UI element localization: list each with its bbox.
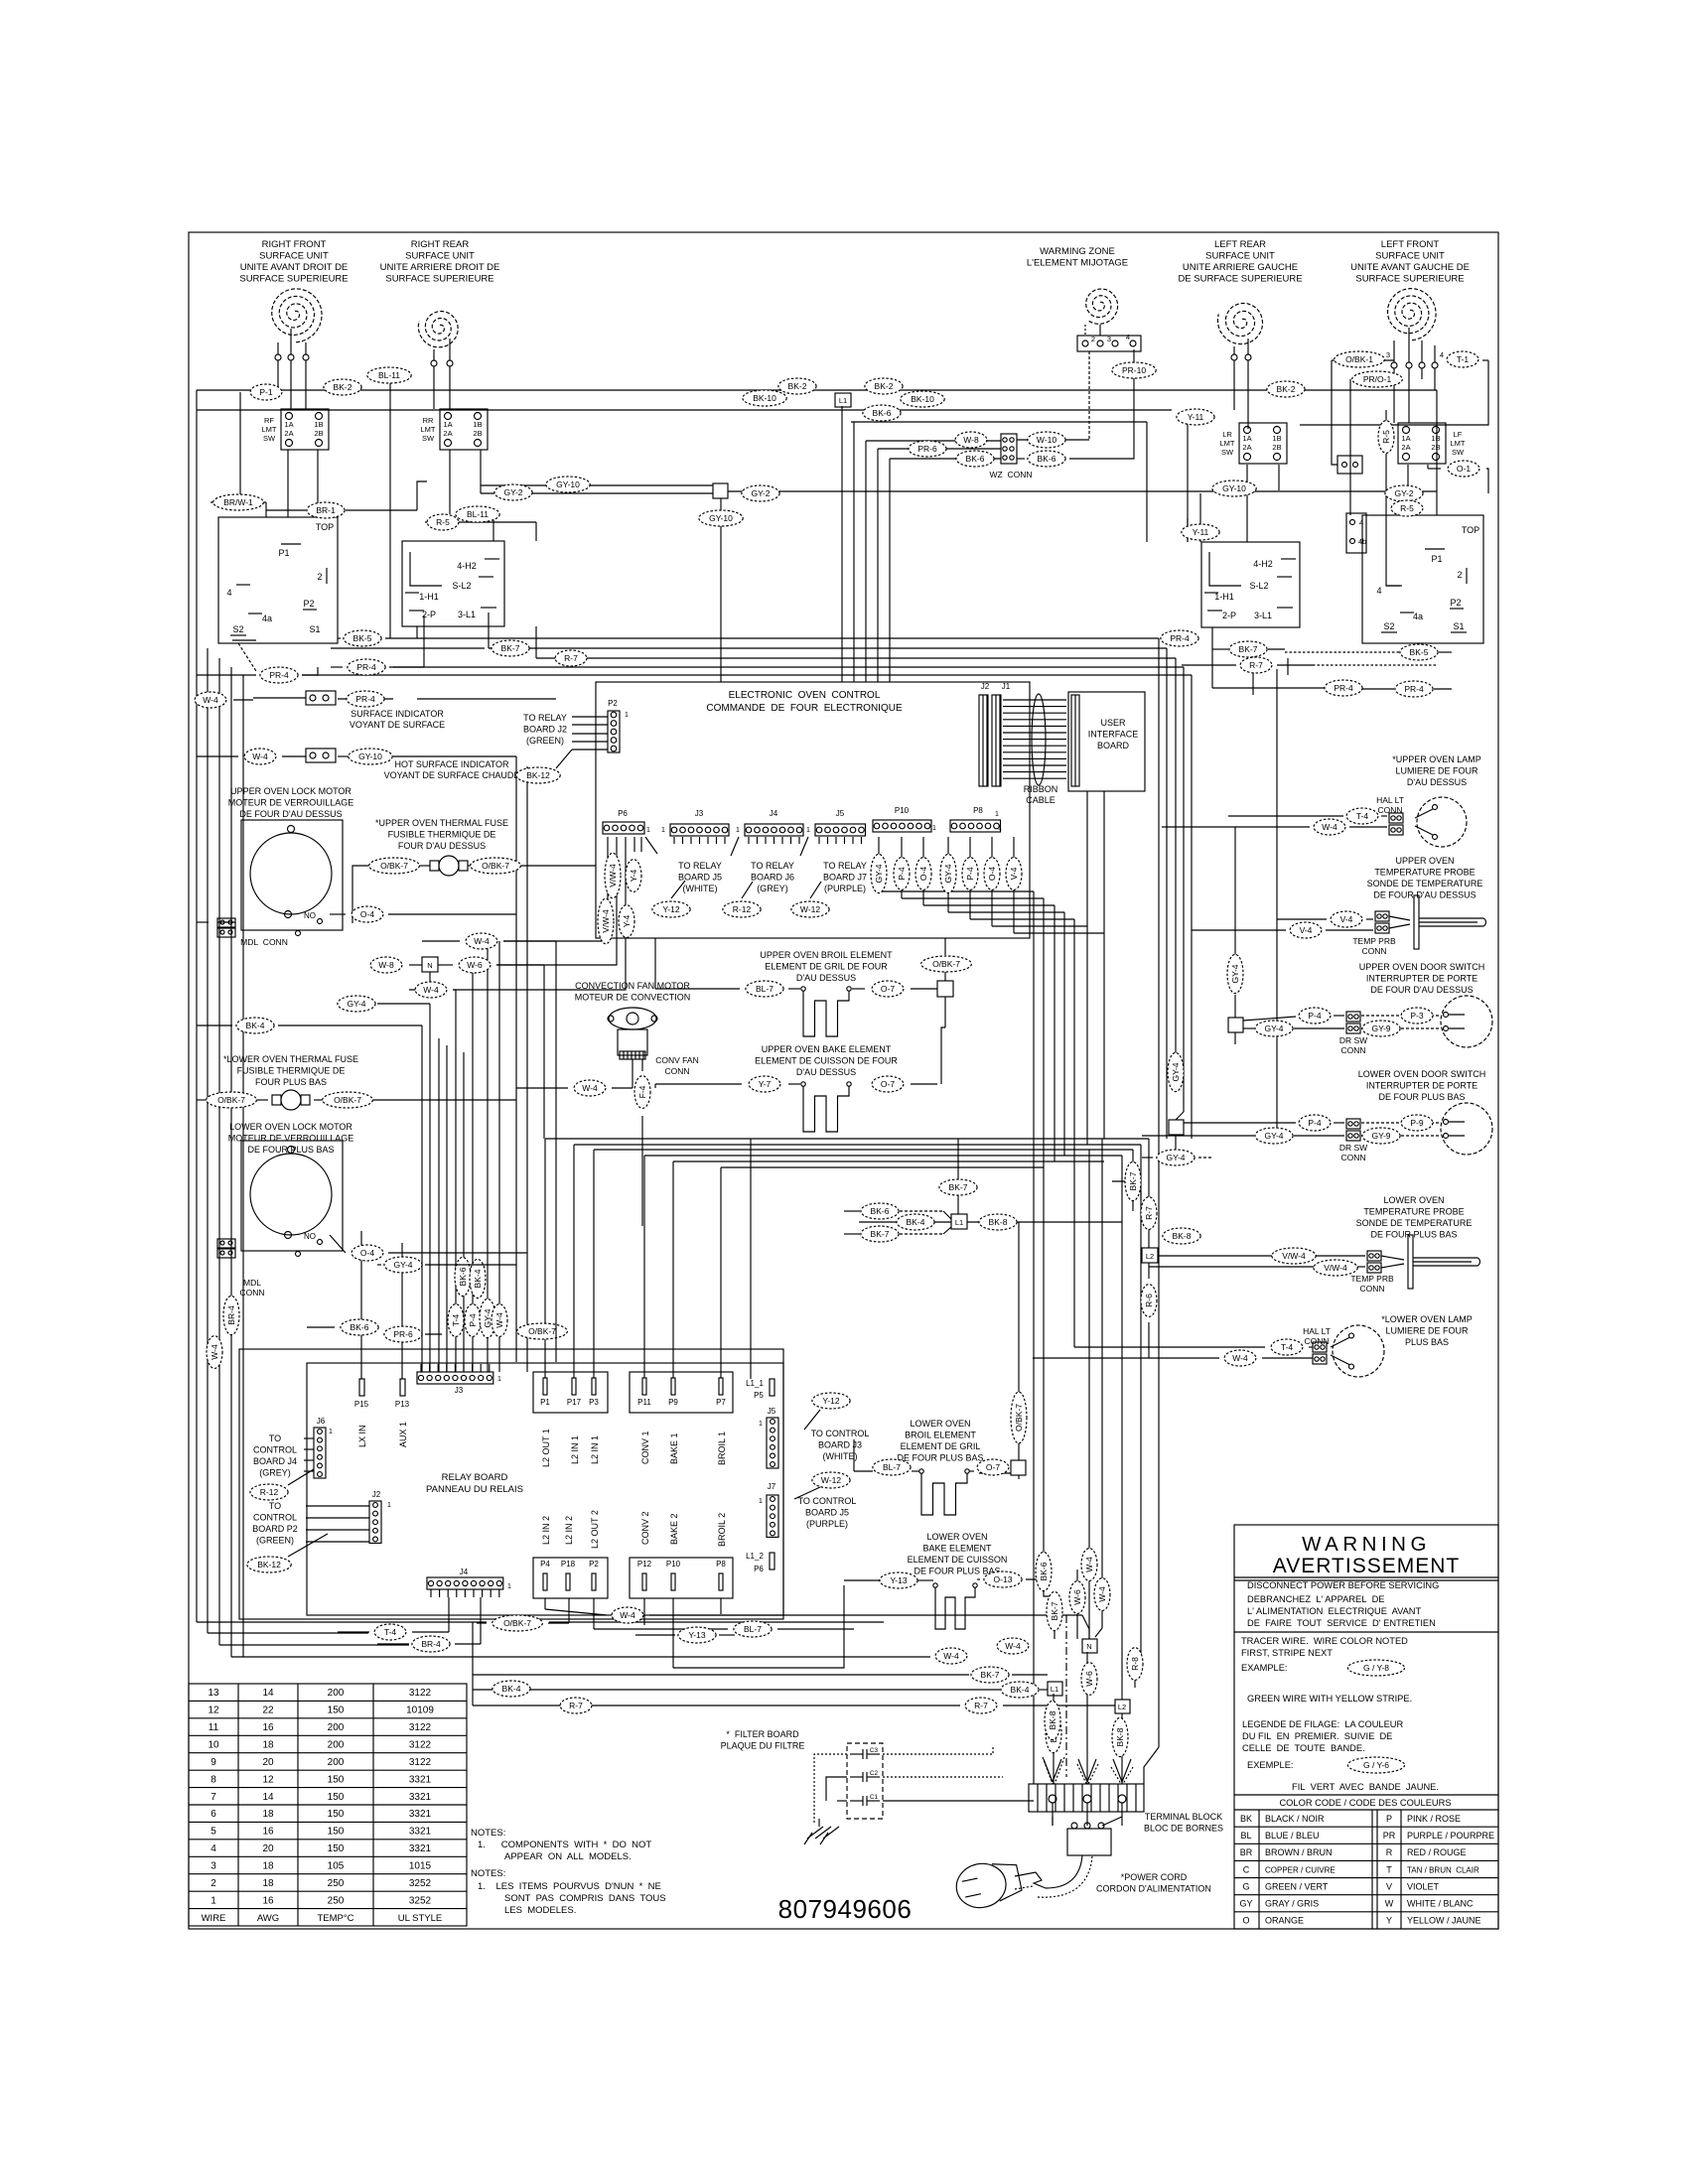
svg-text:BOARD J6: BOARD J6 bbox=[751, 873, 794, 883]
svg-text:HOT SURFACE INDICATOR: HOT SURFACE INDICATOR bbox=[394, 759, 509, 769]
wires upper switch outputs bbox=[338, 637, 341, 639]
oval BK-7 right bbox=[1229, 641, 1267, 657]
svg-text:12: 12 bbox=[208, 1706, 219, 1716]
vertical ovals above relay board bbox=[448, 1304, 464, 1337]
svg-text:TO: TO bbox=[269, 1501, 281, 1511]
node N junction bbox=[422, 957, 438, 972]
svg-text:INTERRUPTER DE PORTE: INTERRUPTER DE PORTE bbox=[1366, 974, 1477, 984]
svg-text:PR-10: PR-10 bbox=[1122, 365, 1146, 375]
svg-text:C2: C2 bbox=[870, 1770, 879, 1777]
wires below relay board bbox=[448, 1597, 450, 1632]
svg-text:R-7: R-7 bbox=[569, 1701, 583, 1710]
oval Y-12 bbox=[652, 901, 690, 917]
svg-text:BAKE 2: BAKE 2 bbox=[669, 1513, 679, 1545]
oval O-4 bbox=[352, 906, 383, 922]
oval BK-4 bbox=[236, 1018, 274, 1033]
svg-text:SURFACE UNIT: SURFACE UNIT bbox=[1375, 251, 1445, 262]
svg-text:T-1: T-1 bbox=[1457, 354, 1470, 364]
staircase from EOC right side bbox=[878, 837, 880, 891]
oval Y-11 bbox=[1182, 524, 1219, 540]
svg-text:*LOWER OVEN LAMP: *LOWER OVEN LAMP bbox=[1381, 1314, 1473, 1324]
oval T-4 bbox=[1346, 808, 1378, 824]
right front surface element coil bbox=[272, 289, 322, 342]
svg-text:PANNEAU DU RELAIS: PANNEAU DU RELAIS bbox=[426, 1484, 523, 1495]
svg-text:BK-7: BK-7 bbox=[1128, 1171, 1138, 1190]
svg-text:Y-12: Y-12 bbox=[662, 904, 679, 914]
svg-text:BROIL ELEMENT: BROIL ELEMENT bbox=[905, 1431, 976, 1440]
svg-text:16: 16 bbox=[262, 1722, 274, 1733]
oval R-7 mid bbox=[965, 1698, 997, 1713]
svg-text:1B: 1B bbox=[1431, 434, 1440, 443]
svg-text:1A: 1A bbox=[1401, 434, 1410, 443]
svg-text:L1_1: L1_1 bbox=[746, 1379, 764, 1388]
oval GY-4 bbox=[384, 1257, 422, 1273]
svg-text:R-7: R-7 bbox=[974, 1701, 988, 1710]
svg-text:LUMIERE DE FOUR: LUMIERE DE FOUR bbox=[1385, 1326, 1469, 1336]
vertical oval BK-8 bbox=[1046, 1713, 1061, 1752]
six line bus with elbows to relay board bbox=[545, 1138, 1149, 1140]
svg-text:CONVECTION FAN MOTOR: CONVECTION FAN MOTOR bbox=[575, 981, 690, 991]
svg-text:LEFT FRONT: LEFT FRONT bbox=[1381, 239, 1440, 250]
svg-text:O-7: O-7 bbox=[986, 1462, 1000, 1472]
junction square bbox=[1011, 1460, 1026, 1475]
svg-text:UNITE ARRIERE DROIT DE: UNITE ARRIERE DROIT DE bbox=[380, 262, 500, 273]
svg-text:TO RELAY: TO RELAY bbox=[678, 861, 722, 871]
oval Y-12 bbox=[812, 1393, 850, 1409]
svg-text:NOTES:: NOTES: bbox=[471, 1868, 505, 1879]
svg-text:EXAMPLE:: EXAMPLE: bbox=[1241, 1663, 1288, 1673]
oval W-4 mid bbox=[997, 1638, 1029, 1654]
svg-text:W-4: W-4 bbox=[474, 936, 490, 946]
svg-text:PLAQUE DU FILTRE: PLAQUE DU FILTRE bbox=[721, 1741, 805, 1751]
svg-text:UPPER OVEN: UPPER OVEN bbox=[1395, 856, 1454, 866]
relay P4/P18/P2 box bbox=[533, 1558, 608, 1598]
svg-text:BK-8: BK-8 bbox=[1048, 1710, 1057, 1729]
warming zone element coil bbox=[1086, 289, 1118, 324]
wires from EOC P6 elbows bbox=[503, 837, 608, 941]
svg-text:EXEMPLE:: EXEMPLE: bbox=[1247, 1760, 1294, 1770]
svg-text:P1: P1 bbox=[1431, 554, 1442, 564]
vertical oval GY-4 bbox=[1227, 954, 1243, 993]
svg-text:BL: BL bbox=[1240, 1831, 1251, 1841]
svg-text:BR-1: BR-1 bbox=[316, 505, 336, 515]
vertical oval P-4 under P10 bbox=[894, 858, 910, 890]
svg-text:J4: J4 bbox=[770, 809, 778, 818]
svg-text:TAN / BRUN CLAIR: TAN / BRUN CLAIR bbox=[1407, 1865, 1479, 1874]
svg-text:MDL CONN: MDL CONN bbox=[240, 937, 288, 947]
svg-text:P7: P7 bbox=[716, 1398, 726, 1407]
svg-text:200: 200 bbox=[328, 1722, 345, 1733]
svg-text:INTERFACE: INTERFACE bbox=[1088, 730, 1139, 740]
svg-text:W-4: W-4 bbox=[423, 985, 439, 995]
svg-text:Y-7: Y-7 bbox=[759, 1079, 772, 1089]
svg-text:2: 2 bbox=[211, 1878, 216, 1889]
vertical oval BK-8 left bbox=[1045, 1701, 1060, 1739]
right rear surface element coil bbox=[418, 312, 458, 347]
svg-text:BK-10: BK-10 bbox=[911, 394, 934, 404]
oval P-1 bbox=[250, 384, 282, 400]
svg-text:COMMANDE DE FOUR ELECTRONIQ: COMMANDE DE FOUR ELECTRONIQUE bbox=[706, 703, 903, 714]
svg-text:RR: RR bbox=[423, 416, 434, 425]
svg-text:CONV 2: CONV 2 bbox=[640, 1511, 650, 1545]
svg-text:LX IN: LX IN bbox=[357, 1425, 367, 1447]
vertical oval W-6 bbox=[1069, 1581, 1085, 1614]
svg-text:LMT: LMT bbox=[1220, 439, 1235, 448]
vertical oval GY-4 bbox=[1168, 1052, 1184, 1091]
svg-text:ELEMENT DE CUISSON DE FOUR: ELEMENT DE CUISSON DE FOUR bbox=[755, 1056, 898, 1066]
svg-text:W-10: W-10 bbox=[1037, 435, 1056, 445]
svg-text:2A: 2A bbox=[443, 429, 452, 438]
wires warming zone bbox=[1088, 351, 1090, 440]
oval O/BK-1 bbox=[1335, 351, 1385, 367]
svg-text:R-7: R-7 bbox=[1144, 1206, 1154, 1220]
svg-text:T-4: T-4 bbox=[384, 1627, 397, 1637]
oval O-7 bbox=[872, 1076, 904, 1092]
oval W-12 bbox=[812, 1472, 850, 1488]
svg-text:BOARD J2: BOARD J2 bbox=[523, 725, 567, 735]
power cord cable bbox=[1015, 1872, 1046, 1888]
svg-text:APPEAR ON ALL MODELS.: APPEAR ON ALL MODELS. bbox=[504, 1851, 632, 1862]
svg-text:DE FAIRE TOUT SERVICE D' E: DE FAIRE TOUT SERVICE D' ENTRETIEN bbox=[1247, 1618, 1436, 1628]
oval BK-10 bbox=[743, 390, 786, 406]
wire junction box bbox=[713, 483, 728, 498]
svg-text:MOTEUR DE VERROUILLAGE: MOTEUR DE VERROUILLAGE bbox=[228, 1134, 354, 1144]
svg-text:DISCONNECT POWER BEFORE SERVIC: DISCONNECT POWER BEFORE SERVICING bbox=[1247, 1580, 1439, 1590]
svg-text:RIBBON: RIBBON bbox=[1024, 784, 1058, 794]
wires long horizontals bbox=[338, 698, 393, 700]
surface indicator connector bbox=[306, 691, 336, 705]
small 2-pin connector bbox=[1337, 456, 1362, 474]
svg-text:4: 4 bbox=[1376, 586, 1381, 596]
svg-text:O-4: O-4 bbox=[918, 867, 928, 881]
svg-text:4-H2: 4-H2 bbox=[1253, 559, 1273, 569]
svg-text:RF: RF bbox=[264, 416, 274, 425]
svg-text:5: 5 bbox=[211, 1827, 216, 1838]
svg-text:O-7: O-7 bbox=[881, 984, 895, 994]
oval BL-11 bbox=[367, 367, 411, 383]
svg-text:R-12: R-12 bbox=[733, 904, 752, 914]
svg-text:TRACER WIRE. WIRE COLOR NOTED: TRACER WIRE. WIRE COLOR NOTED bbox=[1241, 1636, 1408, 1646]
svg-text:W-4: W-4 bbox=[1322, 822, 1337, 832]
svg-text:O/BK-1: O/BK-1 bbox=[1345, 354, 1373, 364]
svg-text:P-4: P-4 bbox=[1308, 1118, 1322, 1128]
svg-text:R: R bbox=[1386, 1847, 1393, 1857]
svg-text:MDL: MDL bbox=[243, 1278, 261, 1288]
relay board A1 bbox=[307, 1363, 783, 1615]
upper oven bake element bbox=[801, 1082, 805, 1086]
svg-text:18: 18 bbox=[262, 1878, 274, 1889]
upper oven broil element bbox=[801, 987, 805, 991]
svg-text:R-12: R-12 bbox=[260, 1487, 279, 1497]
wires top left bbox=[239, 392, 241, 502]
upper MDL connector bbox=[217, 918, 235, 927]
svg-text:BK-8: BK-8 bbox=[1173, 1231, 1192, 1241]
oval W-6 bbox=[459, 957, 491, 973]
svg-text:BK-2: BK-2 bbox=[788, 381, 807, 391]
svg-text:150: 150 bbox=[328, 1843, 345, 1854]
svg-text:GY-4: GY-4 bbox=[1166, 1153, 1185, 1162]
svg-text:CONN: CONN bbox=[1340, 1153, 1365, 1162]
svg-text:BK-7: BK-7 bbox=[981, 1670, 1000, 1680]
svg-text:SW: SW bbox=[1452, 448, 1465, 457]
svg-text:3252: 3252 bbox=[409, 1878, 432, 1889]
oval GY-9 bbox=[1362, 1128, 1400, 1144]
oval GY-10 bbox=[699, 510, 743, 526]
svg-text:D'AU DESSUS: D'AU DESSUS bbox=[1407, 777, 1467, 787]
svg-text:BK-7: BK-7 bbox=[1239, 644, 1258, 654]
svg-text:F-4: F-4 bbox=[637, 1085, 647, 1098]
vertical oval R-8 bbox=[1127, 1648, 1143, 1681]
svg-text:BOARD P2: BOARD P2 bbox=[252, 1524, 298, 1534]
svg-text:1B: 1B bbox=[1272, 434, 1281, 443]
vertical oval V/W-4 bbox=[598, 898, 614, 944]
oval BK-2 bbox=[1267, 381, 1305, 397]
vertical trunk right of EOC bbox=[1033, 891, 1035, 1621]
svg-text:BLOC DE BORNES: BLOC DE BORNES bbox=[1144, 1824, 1223, 1834]
svg-text:BK-7: BK-7 bbox=[949, 1182, 968, 1192]
svg-text:PR-4: PR-4 bbox=[355, 694, 375, 704]
svg-text:P11: P11 bbox=[637, 1398, 651, 1407]
svg-text:1: 1 bbox=[932, 825, 936, 832]
svg-text:R-7: R-7 bbox=[1249, 660, 1263, 670]
junction square bbox=[937, 981, 953, 997]
svg-text:SW: SW bbox=[1221, 448, 1234, 457]
svg-text:BR-4: BR-4 bbox=[421, 1639, 441, 1649]
svg-text:4a: 4a bbox=[262, 614, 272, 623]
svg-text:PINK / ROSE: PINK / ROSE bbox=[1407, 1814, 1461, 1824]
svg-text:DE FOUR PLUS BAS: DE FOUR PLUS BAS bbox=[1378, 1092, 1465, 1102]
svg-text:3122: 3122 bbox=[409, 1740, 432, 1751]
oval BK-7 mid bbox=[971, 1667, 1009, 1683]
left-rear surface switch box bbox=[1201, 542, 1300, 627]
relay P12/P10/P8 box bbox=[630, 1558, 733, 1598]
svg-text:8: 8 bbox=[211, 1774, 216, 1785]
svg-text:BL-7: BL-7 bbox=[756, 984, 774, 994]
border frame bbox=[189, 232, 1498, 1929]
vertical oval R-6 bbox=[1141, 1285, 1157, 1317]
svg-text:O/BK-7: O/BK-7 bbox=[482, 861, 509, 871]
svg-text:BK-2: BK-2 bbox=[875, 381, 894, 391]
oval T-4 bbox=[1271, 1339, 1303, 1355]
svg-text:NOTES:: NOTES: bbox=[471, 1828, 505, 1839]
svg-text:FIL VERT AVEC BANDE JAUNE.: FIL VERT AVEC BANDE JAUNE. bbox=[1292, 1782, 1439, 1792]
LF limit switch bbox=[1398, 423, 1446, 464]
svg-text:HAL LT: HAL LT bbox=[1303, 1326, 1331, 1336]
wires bottom center verticals bbox=[1033, 1621, 1035, 1784]
svg-text:4: 4 bbox=[1126, 333, 1130, 341]
svg-text:CONN: CONN bbox=[1361, 946, 1386, 956]
svg-text:W-12: W-12 bbox=[821, 1475, 841, 1485]
svg-text:RIGHT FRONT: RIGHT FRONT bbox=[262, 239, 327, 250]
svg-text:*LOWER OVEN THERMAL FUSE: *LOWER OVEN THERMAL FUSE bbox=[223, 1054, 358, 1064]
RF limit switch bbox=[281, 409, 329, 450]
svg-text:150: 150 bbox=[328, 1774, 345, 1785]
oval BK-6 bbox=[341, 1319, 378, 1335]
svg-text:J5: J5 bbox=[768, 1407, 776, 1416]
svg-text:W-8: W-8 bbox=[963, 435, 979, 445]
svg-text:ORANGE: ORANGE bbox=[1265, 1916, 1304, 1926]
oval V-4 bbox=[1331, 911, 1362, 927]
vertical oval Y-4 bbox=[626, 860, 641, 892]
oval O-7 bbox=[977, 1459, 1009, 1475]
left rear surface element coil bbox=[1217, 303, 1262, 343]
svg-text:1B: 1B bbox=[473, 420, 482, 429]
svg-text:GY-4: GY-4 bbox=[483, 1308, 492, 1327]
oval O-1 bbox=[1448, 461, 1479, 477]
svg-text:MOTEUR DE CONVECTION: MOTEUR DE CONVECTION bbox=[575, 993, 691, 1003]
svg-text:1: 1 bbox=[329, 1429, 333, 1435]
wires lock motor area bbox=[330, 913, 346, 915]
svg-text:GREEN WIRE WITH YELLOW STRIPE.: GREEN WIRE WITH YELLOW STRIPE. bbox=[1247, 1694, 1412, 1704]
svg-text:CONN: CONN bbox=[1359, 1284, 1384, 1294]
svg-text:W-4: W-4 bbox=[582, 1083, 598, 1093]
svg-text:(GREY): (GREY) bbox=[757, 884, 788, 893]
svg-text:P-3: P-3 bbox=[1410, 1011, 1424, 1021]
svg-text:1A: 1A bbox=[443, 420, 452, 429]
wires bottom left horizontal bbox=[208, 1632, 368, 1634]
oval P-4 bbox=[1299, 1115, 1331, 1131]
svg-text:R-5: R-5 bbox=[1381, 430, 1391, 444]
oval PR-4 bbox=[260, 667, 298, 683]
svg-text:P12: P12 bbox=[637, 1560, 652, 1569]
svg-text:PR-4: PR-4 bbox=[356, 662, 376, 672]
relay board A1 outer outline bbox=[239, 1349, 783, 1619]
oval BK-4 mid bbox=[897, 1214, 934, 1230]
svg-text:BAKE ELEMENT: BAKE ELEMENT bbox=[922, 1544, 992, 1554]
svg-text:Y-4: Y-4 bbox=[622, 915, 632, 928]
svg-text:BK-12: BK-12 bbox=[526, 770, 550, 780]
svg-text:BK-12: BK-12 bbox=[257, 1560, 281, 1570]
oval GY-10 bbox=[546, 477, 590, 492]
svg-text:N: N bbox=[1086, 1642, 1091, 1651]
svg-text:GREEN / VERT: GREEN / VERT bbox=[1265, 1881, 1329, 1891]
svg-text:BOARD J7: BOARD J7 bbox=[823, 873, 867, 883]
svg-text:P-4: P-4 bbox=[965, 867, 975, 881]
svg-text:C1: C1 bbox=[870, 1794, 879, 1801]
filter board wiring bbox=[814, 1754, 847, 1823]
oval GY-10 bbox=[349, 749, 392, 764]
oval R-7 bbox=[555, 650, 587, 666]
svg-text:Y-13: Y-13 bbox=[890, 1575, 907, 1585]
svg-text:14: 14 bbox=[262, 1688, 274, 1699]
svg-text:S-L2: S-L2 bbox=[1249, 581, 1268, 591]
svg-text:BL-7: BL-7 bbox=[883, 1462, 901, 1472]
svg-text:O-4: O-4 bbox=[360, 909, 374, 919]
svg-text:BOARD: BOARD bbox=[1097, 741, 1130, 751]
svg-text:ELEMENT DE GRIL: ELEMENT DE GRIL bbox=[901, 1441, 981, 1451]
svg-text:4a: 4a bbox=[1413, 612, 1423, 621]
svg-text:SONT PAS COMPRIS DANS TOUS: SONT PAS COMPRIS DANS TOUS bbox=[504, 1893, 666, 1904]
oval R-5 bbox=[1391, 500, 1423, 516]
svg-text:UPPER OVEN BROIL ELEMENT: UPPER OVEN BROIL ELEMENT bbox=[760, 950, 893, 960]
svg-text:P-1: P-1 bbox=[259, 387, 273, 397]
svg-text:2A: 2A bbox=[284, 429, 293, 438]
svg-text:L1: L1 bbox=[1051, 1685, 1058, 1694]
svg-text:GY-9: GY-9 bbox=[1371, 1131, 1390, 1141]
oval O-7 bbox=[872, 981, 904, 997]
oval O/BK-7 on riser bbox=[517, 1323, 568, 1339]
oval GY-10 bbox=[1212, 480, 1256, 496]
svg-text:PR-4: PR-4 bbox=[1170, 633, 1190, 643]
svg-text:DR SW: DR SW bbox=[1339, 1143, 1367, 1153]
oval BK-12 bbox=[516, 767, 560, 783]
svg-text:C3: C3 bbox=[870, 1747, 879, 1754]
svg-text:W-4: W-4 bbox=[203, 695, 218, 705]
oval PR-6 bbox=[909, 441, 946, 457]
svg-text:J2: J2 bbox=[981, 682, 990, 691]
svg-text:RED / ROUGE: RED / ROUGE bbox=[1407, 1847, 1467, 1857]
lower oven lock motor M2 bbox=[241, 1141, 343, 1251]
wires lower elements bbox=[854, 1470, 873, 1472]
svg-text:GY-4: GY-4 bbox=[1171, 1062, 1181, 1081]
wire gy band bbox=[481, 484, 713, 486]
oval R-12 bbox=[250, 1484, 288, 1500]
svg-text:WIRE: WIRE bbox=[202, 1913, 226, 1924]
svg-text:1: 1 bbox=[507, 1583, 511, 1590]
svg-text:GY-10: GY-10 bbox=[709, 513, 733, 523]
svg-text:HAL LT: HAL LT bbox=[1376, 795, 1404, 805]
svg-text:P-4: P-4 bbox=[468, 1313, 478, 1327]
warning box bbox=[1234, 1525, 1498, 1929]
svg-text:DR SW: DR SW bbox=[1339, 1035, 1367, 1045]
oval BR/W-1 bbox=[213, 494, 264, 510]
node L1 box mid bbox=[951, 1214, 967, 1229]
svg-text:CONV 1: CONV 1 bbox=[640, 1431, 650, 1464]
RR limit switch bbox=[440, 409, 488, 450]
oval BK-5 right bbox=[1400, 644, 1438, 660]
svg-text:(GREEN): (GREEN) bbox=[256, 1536, 294, 1546]
oval PR-4 far right bbox=[1395, 681, 1433, 697]
svg-text:P3: P3 bbox=[589, 1398, 599, 1407]
svg-text:BK-4: BK-4 bbox=[1011, 1685, 1030, 1695]
svg-text:GY-2: GY-2 bbox=[503, 487, 522, 497]
svg-text:FUSIBLE THERMIQUE DE: FUSIBLE THERMIQUE DE bbox=[237, 1066, 346, 1076]
svg-text:P4: P4 bbox=[540, 1560, 550, 1569]
svg-text:ELECTRONIC OVEN CONTROL: ELECTRONIC OVEN CONTROL bbox=[729, 690, 881, 701]
svg-text:(GREEN): (GREEN) bbox=[526, 736, 564, 746]
vertical oval O-4 under P8 bbox=[984, 858, 1000, 890]
svg-text:USER: USER bbox=[1100, 718, 1126, 728]
relay connector J4 bbox=[427, 1577, 503, 1589]
svg-text:TEMPERATURE PROBE: TEMPERATURE PROBE bbox=[1363, 1207, 1464, 1217]
LR limit switch bbox=[1239, 423, 1287, 464]
svg-text:(PURPLE): (PURPLE) bbox=[806, 1519, 848, 1529]
svg-text:V/W-4: V/W-4 bbox=[1282, 1251, 1306, 1261]
svg-text:P2: P2 bbox=[589, 1560, 599, 1569]
oval BK-4 mid bbox=[1001, 1682, 1039, 1698]
svg-text:1: 1 bbox=[759, 1498, 763, 1505]
svg-text:Y-11: Y-11 bbox=[1193, 527, 1209, 537]
svg-text:V-4: V-4 bbox=[1340, 914, 1353, 924]
terminal block funnels bbox=[1044, 1759, 1053, 1782]
svg-text:BR: BR bbox=[1240, 1847, 1253, 1857]
svg-text:UPPER OVEN LOCK MOTOR: UPPER OVEN LOCK MOTOR bbox=[230, 786, 352, 796]
svg-text:TO CONTROL: TO CONTROL bbox=[811, 1429, 870, 1438]
oval PR/O-1 bbox=[1352, 371, 1403, 387]
LF aux contact box 4/4b bbox=[1346, 513, 1366, 553]
svg-text:UNITE ARRIERE GAUCHE: UNITE ARRIERE GAUCHE bbox=[1183, 262, 1298, 273]
svg-text:WHITE / BLANC: WHITE / BLANC bbox=[1407, 1899, 1474, 1909]
oval BL-7 bbox=[746, 981, 783, 997]
filter board (dashed) bbox=[847, 1743, 883, 1819]
node L2 box bbox=[1142, 1248, 1158, 1263]
mid column long verticals bbox=[1043, 1167, 1045, 1585]
svg-text:L1: L1 bbox=[955, 1218, 963, 1227]
convection fan motor M3 bbox=[609, 1008, 656, 1029]
svg-text:TOP: TOP bbox=[1462, 525, 1479, 535]
svg-text:O/BK-7: O/BK-7 bbox=[528, 1326, 556, 1336]
oval P-4 bbox=[1299, 1008, 1331, 1024]
